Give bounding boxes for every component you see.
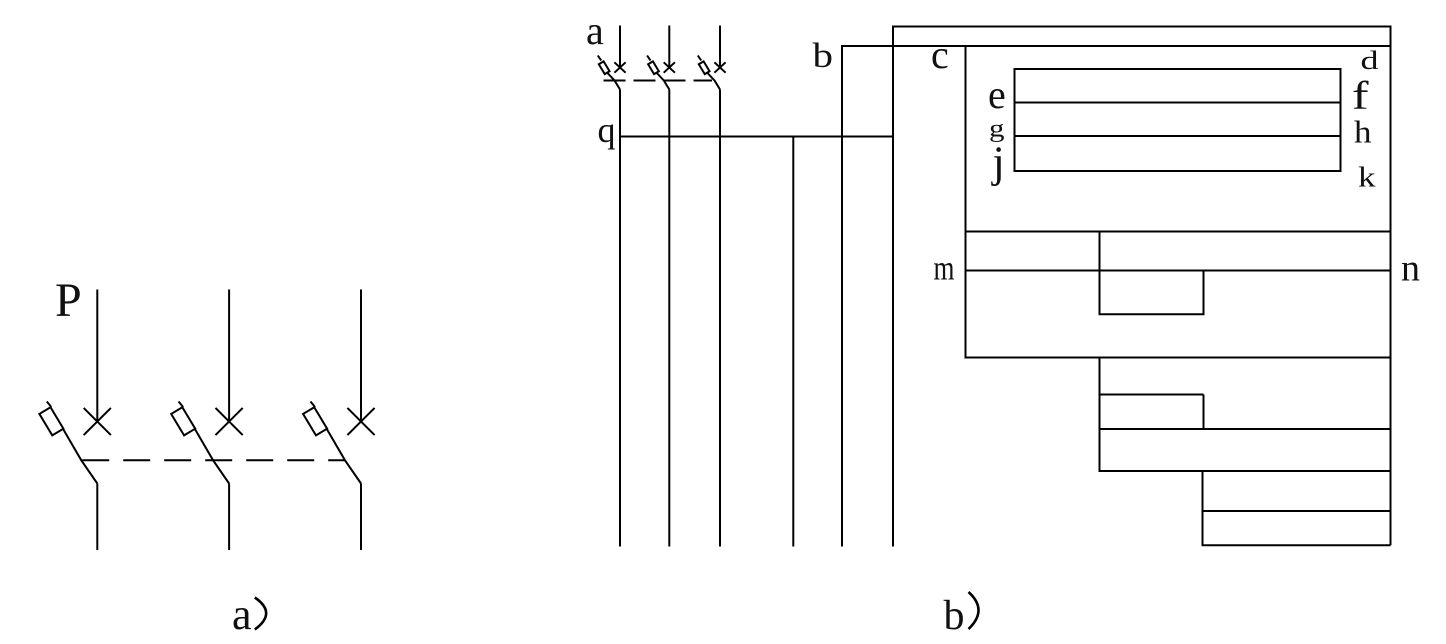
feeder pole 2 : blade tip stub: [647, 56, 650, 61]
breaker pole P3 : blade tip stub: [311, 402, 316, 408]
breaker pole P1 : fuse body: [39, 407, 63, 435]
feeder pole 1 : blade: [608, 73, 621, 90]
breaker pole P1 : incoming wire: [96, 290, 98, 422]
wire b vertical: [841, 45, 843, 547]
svg-text:a: a: [586, 8, 604, 53]
label a: [586, 8, 604, 53]
feeder pole 2 : outgoing wire: [668, 90, 670, 547]
svg-text:f: f: [1352, 73, 1369, 118]
lower plug right wire: [1203, 395, 1205, 430]
svg-text:n: n: [1401, 248, 1420, 290]
breaker pole P1 : outgoing wire: [96, 484, 98, 551]
label h: [1354, 114, 1372, 150]
feeder pole 1 : blade tip stub: [598, 56, 601, 61]
breaker pole P2 : fuse body: [171, 407, 195, 435]
breaker pole P1 : blade: [63, 429, 98, 484]
outer cabinet right edge: [1390, 26, 1392, 546]
label g: [989, 115, 1005, 143]
svg-text:k: k: [1358, 163, 1376, 194]
partition wire c: [965, 46, 967, 358]
breaker pole P1 : contact cross: [84, 408, 111, 435]
feeder pole 1 : incoming wire: [619, 26, 621, 68]
lower section divider edge: [1099, 428, 1391, 430]
feeder pole 3 : contact cross: [714, 62, 725, 72]
label q: [598, 110, 616, 150]
cabinet second top edge: [841, 45, 1391, 47]
svg-text:P: P: [55, 274, 82, 327]
plug notch left wire: [1099, 232, 1101, 315]
feeder pole 3 : incoming wire: [719, 26, 721, 68]
feeder pole 3 : blade: [708, 73, 721, 90]
svg-text:h: h: [1354, 114, 1372, 150]
breaker pole P2 : blade tip stub: [179, 402, 184, 408]
mechanical linkage dashed line (figure b): [604, 80, 713, 82]
label b: [813, 36, 834, 75]
feeder pole 3 : blade tip stub: [698, 56, 701, 61]
plug notch bottom edge: [1099, 313, 1205, 315]
svg-text:e: e: [988, 72, 1006, 117]
caption b): [944, 593, 965, 639]
feeder pole 3 : outgoing wire: [719, 90, 721, 547]
breaker pole P2 : incoming wire: [228, 290, 230, 422]
label m: [934, 249, 955, 288]
label k: [1358, 163, 1376, 194]
outer cabinet left wire: [892, 26, 894, 547]
svg-text:a: a: [232, 590, 252, 639]
breaker pole P2 : contact cross: [216, 408, 243, 435]
breaker pole P2 : blade: [195, 429, 230, 484]
bottom section divider edge: [1202, 510, 1391, 512]
feeder pole 2 : blade: [657, 73, 670, 90]
caption a) parenthesis: [255, 598, 266, 630]
label e: [988, 72, 1006, 117]
label n: [1401, 248, 1420, 290]
breaker pole P3 : outgoing wire: [360, 484, 362, 551]
plug notch right wire: [1203, 271, 1205, 315]
upper compartment bottom edge: [965, 231, 1391, 233]
breaker pole P3 : incoming wire: [360, 290, 362, 422]
label j: [991, 138, 1005, 187]
svg-text:c: c: [931, 32, 949, 77]
busbar box line g-h: [1015, 135, 1341, 137]
svg-text:b: b: [813, 36, 834, 75]
label f: [1352, 73, 1369, 118]
svg-text:q: q: [598, 110, 616, 150]
lower section bottom edge: [1099, 470, 1391, 472]
feeder pole 3 : fuse body: [699, 61, 710, 74]
feeder pole 1 : outgoing wire: [619, 90, 621, 547]
bottom section left wire: [1202, 471, 1204, 545]
outer cabinet top edge: [892, 26, 1391, 28]
breaker pole P3 : fuse body: [303, 407, 327, 435]
svg-text:j: j: [991, 138, 1005, 187]
svg-text:d: d: [1361, 46, 1379, 75]
breaker pole P2 : outgoing wire: [228, 484, 230, 551]
busbar box outline: [1015, 69, 1341, 171]
mechanical linkage dashed line (figure a): [82, 459, 345, 461]
wire drop from q bus: [792, 137, 794, 547]
lower plug top edge: [1100, 394, 1204, 396]
middle compartment bottom edge: [965, 357, 1391, 359]
label P: [55, 274, 82, 327]
svg-text:b: b: [944, 593, 965, 639]
feeder pole 1 : fuse body: [599, 61, 610, 74]
breaker pole P3 : contact cross: [347, 408, 374, 435]
breaker pole P3 : blade: [327, 429, 362, 484]
label c: [931, 32, 949, 77]
bottom section bottom edge: [1202, 544, 1391, 546]
breaker pole P1 : blade tip stub: [47, 402, 52, 408]
busbar box line e-f: [1015, 102, 1341, 104]
feeder pole 1 : contact cross: [614, 62, 625, 72]
label d: [1361, 46, 1379, 75]
lower section left wire: [1099, 358, 1101, 472]
feeder pole 2 : fuse body: [648, 61, 659, 74]
svg-text:m: m: [934, 249, 955, 288]
caption a): [232, 590, 252, 639]
caption b) parenthesis: [969, 592, 979, 629]
wire m-n: [966, 270, 1391, 272]
feeder pole 2 : incoming wire: [668, 26, 670, 68]
bus wire q: [619, 136, 893, 138]
feeder pole 2 : contact cross: [664, 62, 675, 72]
